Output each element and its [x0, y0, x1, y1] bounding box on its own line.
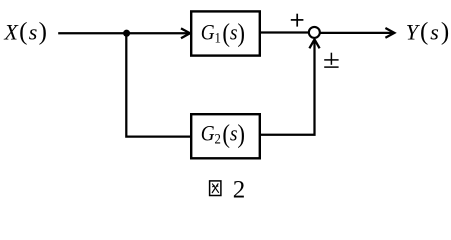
wire G2 to summing junction with up arrowhead: [260, 39, 320, 134]
block G2 box: [191, 114, 260, 158]
wire G1 to summing junction: [260, 31, 308, 33]
summing junction circle: [309, 27, 320, 38]
svg-text:G1(s): G1(s): [201, 19, 245, 48]
junction dot: [123, 30, 130, 37]
svg-text:G2(s): G2(s): [201, 120, 245, 149]
wire summing junction to Y with arrowhead: [320, 28, 394, 38]
block G1 label G1(s): [201, 19, 245, 48]
svg-text:2: 2: [233, 176, 246, 202]
wire junction down and right to G2: [126, 33, 190, 136]
wire X to G1 with arrowhead: [58, 28, 190, 38]
caption kanji ZU (figure) drawn glyph: [210, 181, 221, 196]
plus-minus sign at summing junction feedback input: [324, 53, 338, 67]
plus sign at summing junction input: [291, 14, 304, 27]
block G2 label G2(s): [201, 120, 245, 149]
block G1 box: [191, 11, 260, 55]
svg-text:Y(s): Y(s): [406, 19, 451, 46]
svg-text:X(s): X(s): [3, 19, 48, 46]
